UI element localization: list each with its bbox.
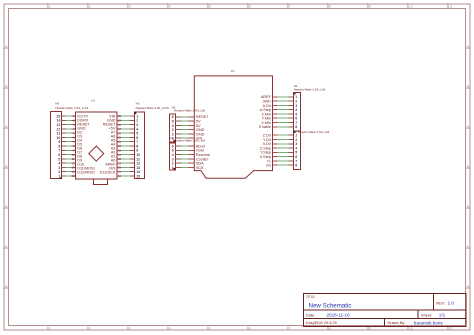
svg-text:X.Dir: X.Dir [263, 142, 272, 146]
wire P1 to H1 pin 7 [273, 122, 294, 124]
svg-text:D1/TX: D1/TX [77, 115, 88, 119]
svg-text:A7: A7 [111, 131, 116, 135]
svg-text:10: 10 [56, 136, 60, 140]
wire P1 to H4 pin 2 [273, 138, 294, 140]
wire H6 pin 12 to U1 [62, 128, 76, 130]
svg-text:D7: D7 [77, 151, 82, 155]
svg-text:2: 2 [136, 119, 138, 123]
wire H5 pin 1 to P1 [175, 166, 194, 168]
svg-text:15: 15 [136, 174, 140, 178]
wire H6 pin 5 to U1 [62, 158, 76, 160]
svg-text:A0: A0 [111, 159, 116, 163]
svg-text:5: 5 [136, 132, 138, 136]
wire P1 to H1 pin 4 [273, 109, 294, 111]
svg-text:A5: A5 [111, 139, 116, 143]
svg-text:GND: GND [263, 99, 272, 103]
svg-text:5V: 5V [196, 119, 201, 123]
svg-text:5: 5 [172, 149, 174, 153]
svg-text:1: 1 [58, 174, 60, 178]
svg-text:5: 5 [58, 157, 60, 161]
wire H2 pin 1 to P1 [175, 137, 194, 139]
svg-text:D4: D4 [77, 139, 82, 143]
wire H6 pin 3 to U1 [62, 166, 76, 168]
title block [304, 294, 466, 327]
svg-text:10: 10 [136, 153, 140, 157]
svg-text:7: 7 [295, 121, 297, 125]
svg-text:8: 8 [136, 144, 138, 148]
svg-text:New Schematic: New Schematic [309, 302, 352, 309]
wire U1 to H3 pin 11 [117, 158, 135, 160]
module P1 (CNC controller board outline) [194, 76, 272, 178]
svg-text:1/1: 1/1 [439, 313, 446, 318]
wire H2 pin 2 to P1 [175, 133, 194, 135]
connector header H1 (Header-Male 2.54_1x8) [294, 93, 301, 131]
connector header H2 (Header-Male 2.54_1x6) [169, 114, 175, 142]
wire H6 pin 11 to U1 [62, 132, 76, 134]
svg-text:D5: D5 [77, 143, 82, 147]
wire P1 to H4 pin 8 [273, 164, 294, 166]
svg-text:7: 7 [136, 140, 138, 144]
wire H6 pin 1 to U1 [62, 175, 76, 177]
svg-text:GND: GND [77, 127, 86, 131]
svg-text:Header-Male 2.54_1x15: Header-Male 2.54_1x15 [55, 106, 88, 110]
svg-text:3: 3 [58, 166, 60, 170]
svg-text:12: 12 [136, 162, 140, 166]
svg-text:7: 7 [58, 149, 60, 153]
svg-text:3: 3 [172, 128, 174, 132]
svg-text:2: 2 [58, 170, 60, 174]
svg-text:15: 15 [56, 114, 60, 118]
wire H5 pin 5 to P1 [175, 149, 194, 151]
wire P1 to H4 pin 5 [273, 151, 294, 153]
svg-text:A6: A6 [111, 135, 116, 139]
svg-text:13: 13 [71, 166, 75, 170]
wire P1 to H1 pin 5 [273, 113, 294, 115]
svg-text:7: 7 [295, 159, 297, 163]
connector header H5 (Header-Male 2.54_1x6) [169, 143, 175, 170]
svg-text:1.0: 1.0 [448, 301, 455, 306]
svg-text:Header-Male 2.54_1x8: Header-Male 2.54_1x8 [298, 130, 330, 134]
svg-text:A.Dir: A.Dir [263, 104, 272, 108]
wire H5 pin 3 to P1 [175, 158, 194, 160]
svg-text:Header-Male 2.54_1x8: Header-Male 2.54_1x8 [294, 88, 326, 92]
svg-text:6: 6 [136, 136, 138, 140]
wire H5 pin 2 to P1 [175, 162, 194, 164]
svg-text:RESET: RESET [77, 123, 90, 127]
wire H6 pin 8 to U1 [62, 145, 76, 147]
svg-text:CoolEn: CoolEn [196, 157, 208, 161]
svg-text:A4: A4 [111, 143, 116, 147]
wire P1 to H4 pin 3 [273, 143, 294, 145]
svg-text:Z.Dir: Z.Dir [263, 134, 272, 138]
svg-text:4: 4 [172, 124, 174, 128]
svg-text:3: 3 [136, 123, 138, 127]
svg-text:5V: 5V [196, 124, 201, 128]
svg-text:11: 11 [136, 157, 140, 161]
svg-text:1: 1 [295, 95, 297, 99]
svg-text:D2: D2 [77, 131, 82, 135]
svg-text:X.Step: X.Step [260, 155, 271, 159]
wire H6 pin 14 to U1 [62, 119, 76, 121]
connector header H6 (Header-Male 2.54_1x15) [50, 111, 62, 179]
svg-text:4: 4 [172, 153, 174, 157]
svg-text:9: 9 [58, 140, 60, 144]
svg-text:EasyEDA V5.8.20: EasyEDA V5.8.20 [306, 320, 338, 325]
svg-text:14: 14 [136, 170, 140, 174]
wire H2 pin 3 to P1 [175, 129, 194, 131]
wire P1 to H4 pin 1 [273, 134, 294, 136]
connector header H3 (Header-Male 2.54_1x15) [134, 112, 144, 178]
svg-text:1: 1 [295, 134, 297, 138]
connector header H4 (Header-Male 2.54_1x8) [294, 131, 301, 169]
svg-text:VIN: VIN [196, 137, 203, 141]
svg-text:GND: GND [196, 132, 205, 136]
svg-text:6: 6 [172, 115, 174, 119]
svg-text:GND: GND [196, 128, 205, 132]
IC U1 (Arduino Nano) [71, 112, 121, 185]
svg-text:Drawn By:: Drawn By: [388, 320, 406, 325]
svg-text:TITLE:: TITLE: [306, 295, 316, 299]
svg-text:A1: A1 [111, 155, 116, 159]
wire P1 to H1 pin 6 [273, 117, 294, 119]
svg-text:Rx: Rx [266, 164, 271, 168]
svg-text:Enable: Enable [259, 125, 271, 129]
svg-text:9: 9 [136, 149, 138, 153]
svg-text:8: 8 [295, 125, 297, 129]
svg-text:U1: U1 [91, 98, 95, 102]
wire H6 pin 7 to U1 [62, 149, 76, 151]
svg-text:AREF: AREF [261, 95, 272, 99]
svg-text:6: 6 [295, 117, 297, 121]
wire U1 to H3 pin 7 [117, 141, 135, 143]
svg-text:RESET: RESET [103, 123, 116, 127]
wire U1 to H3 pin 4 [117, 128, 135, 130]
svg-text:Z.Step: Z.Step [260, 146, 271, 150]
svg-text:Header-Male 2.54_1x6: Header-Male 2.54_1x6 [174, 109, 206, 113]
svg-text:SDA: SDA [196, 162, 204, 166]
svg-text:4: 4 [58, 162, 60, 166]
svg-text:3: 3 [295, 142, 297, 146]
svg-text:D3: D3 [77, 135, 82, 139]
wire U1 to H3 pin 10 [117, 154, 135, 156]
wire U1 to H3 pin 1 [117, 115, 135, 117]
wire U1 to H3 pin 6 [117, 136, 135, 138]
wire U1 to H3 pin 15 [117, 175, 135, 177]
wire U1 to H3 pin 9 [117, 149, 135, 151]
svg-text:A2: A2 [111, 151, 116, 155]
svg-text:4: 4 [136, 127, 138, 131]
svg-text:SCK: SCK [196, 166, 204, 170]
svg-text:2: 2 [295, 138, 297, 142]
wire P1 to H1 pin 8 [273, 126, 294, 128]
svg-text:10: 10 [71, 153, 75, 157]
svg-text:5: 5 [295, 151, 297, 155]
svg-text:REV:: REV: [436, 300, 445, 305]
svg-text:Abort: Abort [196, 144, 206, 148]
svg-text:D6: D6 [77, 147, 82, 151]
svg-text:X.Min: X.Min [261, 121, 271, 125]
wire H5 pin 6 to P1 [175, 145, 194, 147]
svg-text:6: 6 [58, 153, 60, 157]
wire H6 pin 15 to U1 [62, 115, 76, 117]
svg-text:D13/SCK: D13/SCK [100, 171, 116, 175]
wire P1 to H1 pin 1 [273, 96, 294, 98]
svg-text:Sheet:: Sheet: [421, 312, 432, 317]
svg-text:13: 13 [136, 166, 140, 170]
svg-text:12: 12 [71, 161, 75, 165]
svg-text:Hold: Hold [196, 149, 204, 153]
wire H2 pin 6 to P1 [175, 116, 194, 118]
wire U1 to H3 pin 13 [117, 166, 135, 168]
wire U1 to H3 pin 12 [117, 162, 135, 164]
svg-text:14: 14 [71, 170, 75, 174]
wire U1 to H3 pin 2 [117, 119, 135, 121]
wire P1 to H4 pin 4 [273, 147, 294, 149]
wire P1 to H1 pin 2 [273, 100, 294, 102]
wire H6 pin 10 to U1 [62, 136, 76, 138]
svg-text:A.Step: A.Step [260, 108, 271, 112]
svg-text:Header-Male 2.54_1x15: Header-Male 2.54_1x15 [136, 106, 169, 110]
svg-text:VIN: VIN [109, 115, 116, 119]
wire U1 to H3 pin 5 [117, 132, 135, 134]
svg-text:1: 1 [136, 114, 138, 118]
wire P1 to H4 pin 6 [273, 156, 294, 158]
svg-text:8: 8 [295, 164, 297, 168]
svg-text:13: 13 [56, 123, 60, 127]
wire H6 pin 4 to U1 [62, 162, 76, 164]
svg-text:Y.Min: Y.Min [262, 117, 271, 121]
wire H6 pin 6 to U1 [62, 154, 76, 156]
svg-text:8: 8 [58, 144, 60, 148]
svg-text:A3: A3 [111, 147, 116, 151]
wire H6 pin 9 to U1 [62, 141, 76, 143]
svg-text:3: 3 [295, 104, 297, 108]
wire H2 pin 4 to P1 [175, 124, 194, 126]
svg-text:4: 4 [295, 146, 297, 150]
svg-text:D9: D9 [77, 159, 82, 163]
svg-text:GND: GND [107, 119, 116, 123]
wire H6 pin 13 to U1 [62, 124, 76, 126]
svg-text:Y.Step: Y.Step [260, 151, 271, 155]
svg-text:Y.Dir: Y.Dir [263, 138, 272, 142]
svg-text:2: 2 [172, 162, 174, 166]
svg-text:Tx: Tx [267, 159, 271, 163]
svg-text:D10: D10 [77, 163, 84, 167]
svg-text:H6: H6 [55, 102, 59, 106]
svg-text:Resume: Resume [196, 153, 210, 157]
svg-text:3: 3 [172, 157, 174, 161]
svg-text:+5V: +5V [109, 127, 116, 131]
svg-text:2018-11-16: 2018-11-16 [327, 313, 351, 318]
wire H5 pin 4 to P1 [175, 154, 194, 156]
svg-text:H3: H3 [136, 102, 140, 106]
svg-text:D8: D8 [77, 155, 82, 159]
svg-text:Date:: Date: [306, 312, 315, 317]
svg-text:5: 5 [172, 119, 174, 123]
wire P1 to H4 pin 7 [273, 160, 294, 162]
svg-text:4: 4 [295, 108, 297, 112]
svg-text:H4: H4 [293, 129, 297, 133]
wire H2 pin 5 to P1 [175, 120, 194, 122]
wire U1 to H3 pin 8 [117, 145, 135, 147]
svg-text:barannik.boris: barannik.boris [414, 320, 444, 325]
svg-text:D0/RX: D0/RX [77, 119, 89, 123]
svg-text:11: 11 [72, 157, 75, 161]
svg-text:5: 5 [295, 112, 297, 116]
svg-text:Z.Min: Z.Min [262, 112, 272, 116]
svg-text:AREF: AREF [105, 163, 116, 167]
svg-text:RESET: RESET [196, 115, 209, 119]
svg-text:6: 6 [172, 144, 174, 148]
svg-text:14: 14 [56, 119, 60, 123]
svg-text:6: 6 [295, 155, 297, 159]
svg-text:15: 15 [71, 174, 75, 178]
svg-text:D11/MOSI: D11/MOSI [77, 167, 94, 171]
svg-text:2: 2 [295, 99, 297, 103]
svg-text:D12/MISO: D12/MISO [77, 171, 95, 175]
svg-text:3V3: 3V3 [109, 167, 116, 171]
svg-text:11: 11 [57, 132, 61, 136]
svg-text:P1: P1 [231, 69, 235, 73]
svg-text:12: 12 [56, 127, 60, 131]
wire U1 to H3 pin 14 [117, 171, 135, 173]
wire H6 pin 2 to U1 [62, 171, 76, 173]
wire U1 to H3 pin 3 [117, 124, 135, 126]
wire P1 to H1 pin 3 [273, 104, 294, 106]
